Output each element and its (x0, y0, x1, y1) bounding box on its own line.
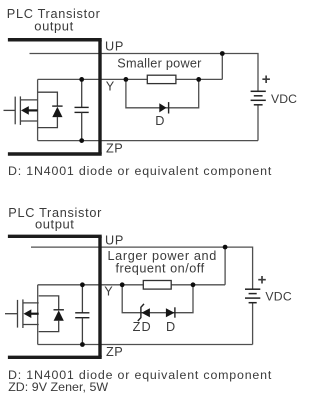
svg-text:ZP: ZP (106, 345, 123, 359)
svg-text:UP: UP (105, 40, 124, 54)
transistor Q2 drain stub (23, 302, 39, 304)
battery VDC plate short 2 (254, 104, 263, 106)
transistor Q2 substrate arrow head (24, 309, 32, 318)
PLC boundary thick bottom line (8, 356, 102, 359)
capacitor C1 top lead (81, 79, 83, 107)
svg-text:D: 1N4001 diode or equivalent: D: 1N4001 diode or equivalent component (8, 164, 272, 178)
svg-text:Smaller power: Smaller power (117, 57, 202, 71)
body diode top wire (38, 92, 58, 106)
svg-text:VDC: VDC (265, 290, 291, 304)
svg-text:ZD: 9V Zener, 5W: ZD: 9V Zener, 5W (8, 380, 108, 394)
wire internal left vertical (37, 285, 39, 345)
capacitor C1 bottom lead (81, 112, 83, 140)
transistor Q2 gate lead (5, 313, 18, 315)
capacitor C2 top plate (75, 312, 89, 314)
PLC boundary thick right line (98, 40, 101, 154)
junction dot branch rejoin (196, 77, 201, 82)
wire clamp branch (Y dot down, right, up) (122, 285, 193, 313)
wire battery negative lead (257, 105, 259, 141)
svg-text:frequent on/off: frequent on/off (116, 261, 205, 275)
junction dot Y branch (124, 77, 129, 82)
wire Y rail (internal top rail to riser corner) (38, 284, 225, 286)
body diode cathode bar (54, 309, 64, 311)
PLC boundary thick bottom line (8, 152, 102, 155)
transistor Q1 source stub (20, 120, 37, 122)
junction dot Y branch (120, 282, 125, 287)
wire battery negative lead (252, 303, 254, 345)
battery VDC plate long 1 (251, 90, 266, 92)
svg-text:Y: Y (104, 285, 113, 299)
capacitor C2 bottom lead (81, 318, 83, 345)
zener ZD triangle (142, 308, 150, 317)
svg-text:output: output (35, 216, 74, 231)
wire UP rail to battery + (30, 54, 259, 92)
diode D cathode bar (174, 307, 176, 317)
capacitor C2 bottom plate (75, 317, 89, 319)
body diode bottom wire (39, 321, 59, 332)
svg-text:Y: Y (106, 80, 115, 94)
svg-text:UP: UP (105, 234, 124, 248)
body diode cathode bar (52, 105, 62, 107)
body diode top wire (39, 296, 59, 310)
wire Y rail (internal top rail to riser corner) (38, 78, 223, 80)
transistor Q1 channel bar (19, 96, 21, 125)
wire ZP rail to battery - (38, 140, 258, 142)
svg-text:ZD: ZD (133, 320, 152, 334)
transistor Q2 source stub (23, 324, 39, 326)
junction dot cap bottom (80, 342, 85, 347)
svg-text:+: + (258, 272, 267, 289)
transistor Q1 substrate arrow head (21, 106, 29, 115)
svg-text:+: + (262, 71, 271, 88)
body diode triangle (54, 310, 64, 320)
resistor load (smaller power) (147, 75, 176, 83)
svg-text:D: D (155, 114, 164, 128)
PLC boundary thick top line (8, 38, 102, 41)
battery VDC plate short 2 (249, 302, 257, 304)
wire riser from load line up to UP rail (224, 247, 226, 285)
wire internal left vertical (37, 79, 39, 140)
PLC boundary thick top line (8, 235, 102, 238)
body diode triangle (52, 107, 62, 117)
capacitor C1 bottom plate (75, 111, 89, 113)
diode D triangle (166, 308, 175, 317)
diode D cathode bar (168, 102, 170, 113)
wire freewheel branch (Y dot down, right, up) (126, 79, 199, 107)
transistor Q2 gate bar (17, 300, 19, 328)
junction dot cap top (80, 282, 85, 287)
zener ZD cathode bar with hooks (138, 304, 144, 321)
body diode bottom wire (38, 117, 58, 128)
wire riser from load line up to UP rail (221, 54, 223, 80)
svg-text:VDC: VDC (271, 92, 297, 106)
capacitor C1 top plate (75, 106, 89, 108)
junction dot cap top (79, 77, 84, 82)
junction dot cap bottom (79, 138, 84, 143)
transistor Q2 substrate arrow shaft (30, 313, 39, 315)
transistor Q1 substrate arrow shaft (28, 109, 38, 111)
battery VDC plate long 2 (245, 297, 260, 299)
junction dot branch rejoin (191, 282, 196, 287)
wire UP rail to battery + (31, 247, 253, 289)
battery VDC plate long 1 (245, 288, 260, 290)
PLC boundary thick right line (98, 236, 101, 357)
transistor Q1 gate bar (14, 97, 16, 125)
battery VDC plate short 1 (254, 95, 263, 97)
svg-text:ZP: ZP (106, 142, 123, 156)
junction dot riser on UP rail (220, 51, 225, 56)
junction dot riser on UP rail (223, 245, 228, 250)
svg-text:D: D (166, 320, 175, 334)
svg-text:output: output (34, 18, 73, 33)
transistor Q2 channel bar (22, 299, 24, 328)
wire ZP rail to battery - (38, 344, 253, 346)
capacitor C2 top lead (81, 285, 83, 313)
transistor Q1 gate lead (4, 109, 16, 111)
resistor load (larger power) (143, 281, 171, 290)
battery VDC plate short 1 (249, 293, 257, 295)
battery VDC plate long 2 (251, 99, 266, 101)
diode D triangle (159, 103, 166, 112)
transistor Q1 drain stub (20, 99, 37, 101)
